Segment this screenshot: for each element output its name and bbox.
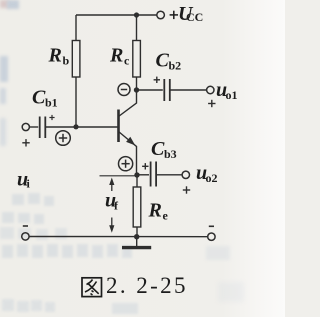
bleed-through smudge top-left corner — [0, 0, 19, 9]
polarity mark: circled plus at emitter — [119, 157, 133, 171]
bleed-through faint cluster left mid-low — [0, 227, 67, 240]
polarity mark: plus below uo1 terminal — [208, 100, 215, 107]
polarity mark: minus above bottom-left terminal — [23, 225, 28, 227]
resistor Rc — [133, 41, 141, 78]
svg-text:R: R — [48, 45, 62, 67]
polarity mark: circled plus at base — [56, 131, 71, 146]
capacitor Cb1 — [40, 117, 46, 139]
node A: junction top rail / Rc — [134, 12, 139, 17]
ground — [122, 237, 151, 248]
polarity mark: circled minus at collector — [118, 84, 130, 96]
svg-text:R: R — [148, 200, 162, 222]
capacitor Cb3 — [151, 162, 157, 187]
label +Ucc — [170, 3, 204, 25]
voltage arrow uf (up arrowhead, shaft, label, down arrowhead) — [109, 178, 114, 233]
caption 图 2.2-25 (tu character drawn as strokes) — [82, 278, 102, 297]
polarity mark: small plus above Cb1 — [49, 115, 54, 120]
bleed-through smudge left edge mid — [0, 118, 6, 146]
label uf — [105, 190, 119, 213]
svg-text:R: R — [109, 45, 123, 67]
label Rb — [48, 45, 70, 68]
node B: base node (Rb / input) — [73, 124, 78, 129]
bleed-through faint patch below caption right — [218, 282, 244, 302]
wire: uf top reference from emitter node leftward — [100, 175, 138, 177]
wire: emitter node down to Re — [136, 175, 138, 187]
node E: emitter node — [134, 172, 139, 177]
wire: Rc branch upper — [136, 15, 138, 41]
svg-text:e: e — [163, 209, 169, 223]
wire: top rail from Rb top to Ucc terminal — [76, 14, 157, 16]
svg-text:o2: o2 — [206, 171, 218, 185]
wire: Re bottom to ground rail — [136, 227, 138, 237]
capacitor Cb2 — [164, 79, 170, 101]
svg-text:CC: CC — [186, 10, 203, 24]
label Cb3 — [151, 138, 177, 161]
wire: Rb branch upper — [75, 15, 77, 41]
svg-text:b2: b2 — [169, 59, 182, 73]
node C: collector node — [134, 87, 139, 92]
wire: emitter node to Cb3 left plate — [137, 174, 149, 176]
wire: bottom rail — [29, 236, 207, 238]
polarity mark: plus below uo2 terminal — [183, 186, 190, 193]
wire: collector node to Cb2 left plate — [137, 89, 163, 91]
bleed-through faint chunk right of ground row — [206, 246, 230, 260]
label uo1 — [216, 79, 238, 102]
svg-text:o1: o1 — [226, 88, 238, 102]
node: bottom-left terminal — [22, 233, 29, 240]
svg-text:b: b — [63, 54, 70, 68]
polarity mark: plus left of Cb3 — [142, 163, 148, 169]
node: uo1 terminal — [207, 86, 214, 93]
resistor Rb — [72, 41, 80, 78]
label ui — [17, 169, 31, 191]
node: uo2 terminal — [182, 171, 189, 178]
node: input terminal — [22, 123, 29, 130]
node: bottom-right terminal — [208, 233, 215, 240]
svg-text:C: C — [156, 50, 170, 72]
svg-text:b3: b3 — [164, 147, 177, 161]
svg-text:b1: b1 — [45, 96, 58, 110]
bleed-through bottom-left characters — [2, 299, 138, 314]
svg-text:C: C — [32, 87, 46, 109]
node: +Ucc terminal — [157, 11, 165, 19]
polarity mark: minus above bottom-right terminal — [209, 225, 214, 227]
wire: Cb1 right plate through base node to transistor base — [45, 126, 117, 128]
polarity mark: plus left of Cb2 — [154, 77, 160, 83]
transistor Q1 — [119, 90, 137, 175]
label Cb1 — [32, 87, 58, 110]
label Re — [148, 200, 169, 223]
node G: ground rail junction — [134, 234, 139, 239]
wire: input terminal to Cb1 left plate — [29, 126, 38, 128]
label Rc — [109, 45, 130, 68]
label Cb2 — [156, 50, 182, 73]
polarity mark: plus below input terminal — [22, 139, 29, 146]
svg-text:2. 2-25: 2. 2-25 — [106, 273, 188, 298]
wire: Rb branch lower to base node — [75, 77, 77, 127]
bleed-through characters lower-left — [2, 193, 54, 224]
bleed-through character row above caption — [2, 244, 132, 258]
svg-text:C: C — [151, 138, 165, 160]
label uo2 — [196, 162, 218, 185]
svg-text:c: c — [124, 54, 130, 68]
wire: Cb3 right plate to uo2 terminal — [156, 174, 182, 176]
wire: Rc branch lower to collector node — [136, 77, 138, 90]
resistor Re — [133, 187, 141, 227]
bleed-through smudge left edge upper — [0, 56, 8, 104]
wire: Cb2 right plate to uo1 terminal — [170, 89, 207, 91]
